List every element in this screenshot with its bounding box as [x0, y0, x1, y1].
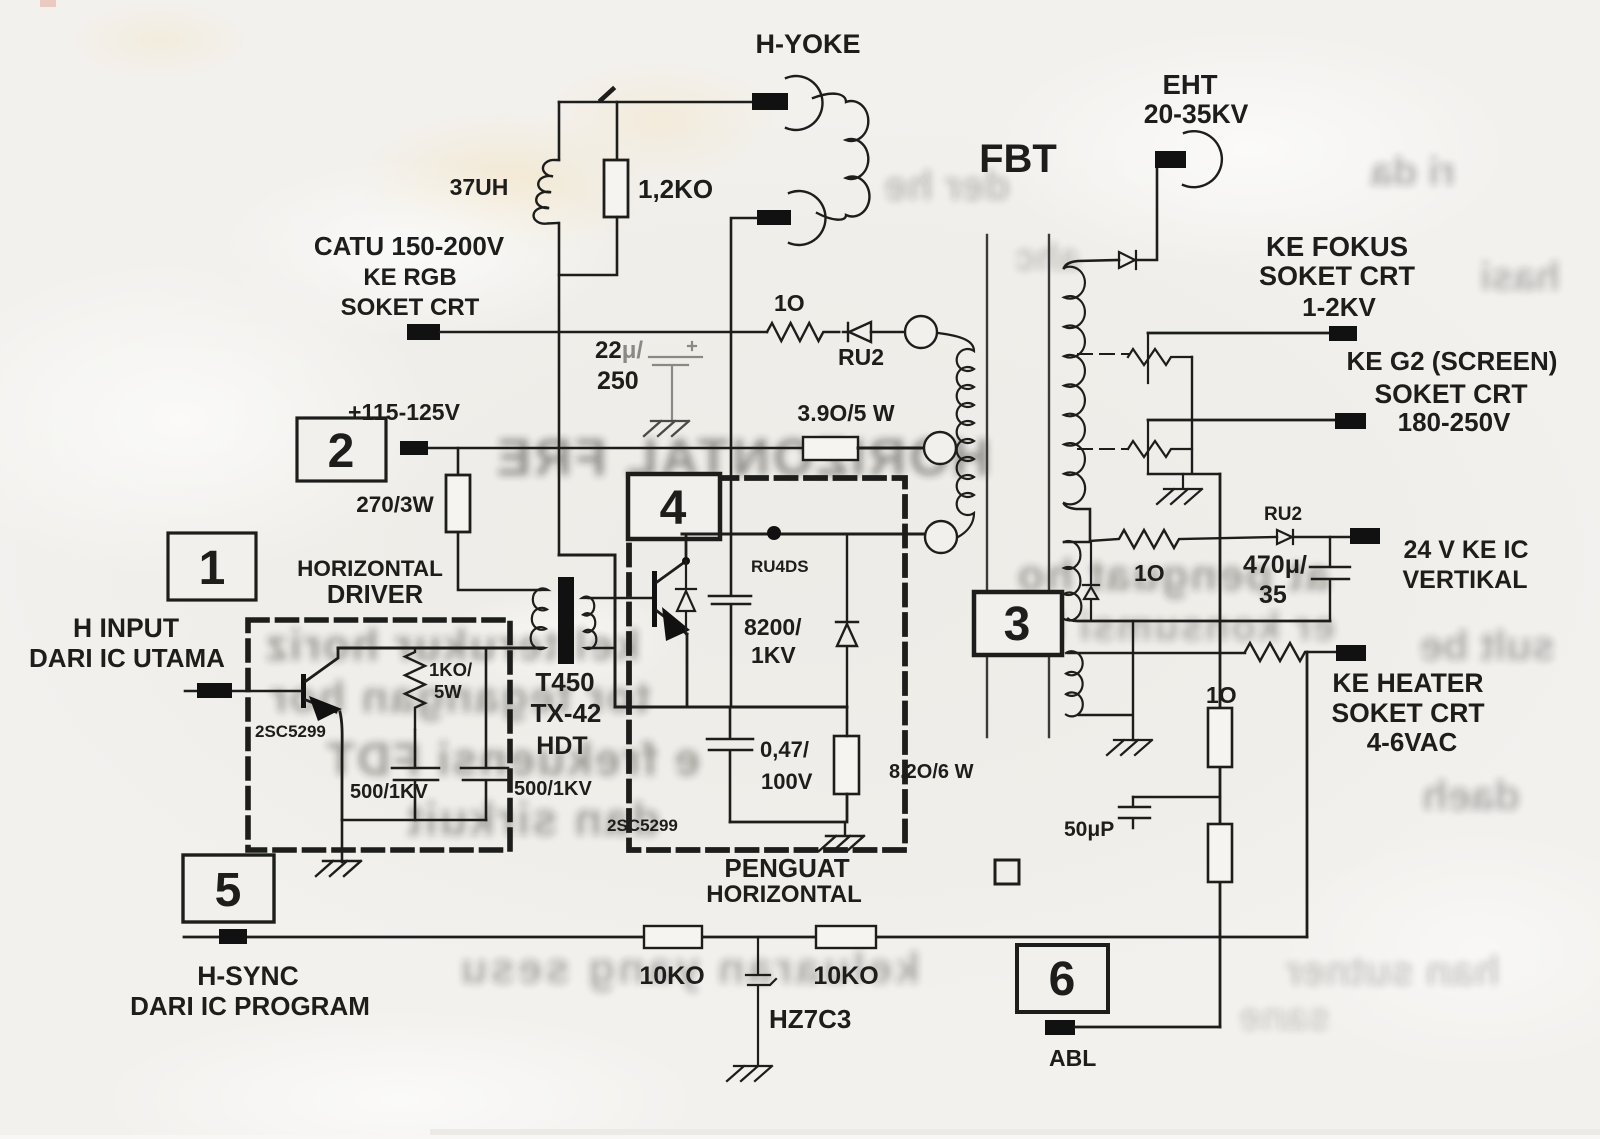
transistor Q1 emitter with arrow: [306, 700, 336, 712]
svg-text:H INPUT: H INPUT: [73, 613, 179, 643]
svg-text:SOKET CRT: SOKET CRT: [1374, 379, 1527, 409]
focus wiper: [1147, 333, 1149, 383]
svg-text:1: 1: [199, 542, 226, 595]
svg-text:10KO: 10KO: [639, 962, 704, 990]
FBT pin circle 2: [924, 432, 956, 464]
wire collector node rail y534: [682, 533, 924, 536]
wire driver collector rail y648: [338, 647, 543, 650]
node dot: [767, 526, 781, 540]
svg-text:5: 5: [215, 864, 242, 917]
wire driver emitter bottom: [342, 819, 486, 822]
wire 8.2 bottom loop: [730, 794, 847, 822]
connector KE G2 plug: [1335, 413, 1366, 429]
ground heater: [1107, 740, 1152, 755]
wire pots bottom rail: [1148, 357, 1220, 474]
wire heater top: [1068, 652, 1245, 654]
svg-text:ahc: ahc: [1015, 237, 1080, 279]
svg-text:5W: 5W: [434, 681, 462, 702]
svg-text:1O: 1O: [1134, 560, 1165, 586]
small square marker: [995, 860, 1019, 884]
svg-text:0,47/: 0,47/: [760, 737, 809, 762]
wire 1,2KO bottom loop: [559, 217, 617, 275]
FBT core lines: [987, 235, 1049, 737]
wire ABL chain vertical: [1219, 474, 1222, 1027]
svg-text:270/3W: 270/3W: [356, 492, 434, 517]
capacitor 470u/35: [1310, 537, 1350, 621]
svg-text:TX-42: TX-42: [531, 698, 602, 728]
wire ABL: [1075, 1026, 1220, 1029]
wire H-SYNC bus: [184, 936, 1307, 939]
capacitor 50uP: [1119, 797, 1150, 828]
svg-text:HORIZONTAL: HORIZONTAL: [297, 556, 443, 581]
diode RU2 right: [1277, 530, 1293, 544]
capacitor 0,47/100V: [707, 707, 753, 822]
svg-text:DARI IC PROGRAM: DARI IC PROGRAM: [130, 991, 370, 1021]
wire diode to FBT pin1: [843, 331, 906, 334]
wire +115 rail: [427, 447, 803, 450]
transistor Q1 2SC5299 base bar: [301, 674, 306, 708]
connector H INPUT plug: [197, 683, 232, 698]
svg-text:37UH: 37UH: [450, 174, 509, 200]
svg-text:2: 2: [328, 425, 355, 478]
FBT primary winding upper: [938, 333, 974, 537]
svg-text:SOKET CRT: SOKET CRT: [1259, 261, 1416, 291]
box 4: [628, 474, 720, 539]
wire FBT top to EHT diode: [1064, 260, 1119, 268]
svg-text:10KO: 10KO: [813, 962, 878, 990]
wire 50uP branch: [1133, 796, 1220, 798]
box 6: [1017, 945, 1108, 1012]
wire Q1 emitter down: [340, 712, 342, 820]
transformer T450 secondary winding: [582, 597, 596, 649]
svg-text:24 V KE IC: 24 V KE IC: [1403, 536, 1528, 564]
svg-text:sane: sane: [1239, 995, 1330, 1039]
box 2: [297, 418, 386, 481]
box 1: [168, 533, 256, 600]
resistor 1KO/5W zigzag: [405, 648, 425, 729]
wire 8.2 top lead: [846, 707, 849, 736]
svg-text:500/1KV: 500/1KV: [350, 781, 428, 803]
capacitor 500/1KV left: [392, 730, 439, 820]
svg-text:3.9O/5 W: 3.9O/5 W: [797, 400, 894, 426]
EHT socket arc: [1183, 131, 1222, 187]
svg-text:SOKET CRT: SOKET CRT: [1331, 698, 1484, 728]
ground driver: [316, 861, 361, 876]
screen wiper: [1147, 420, 1149, 474]
resistor 10KO left: [644, 926, 702, 948]
resistor ABL upper: [1208, 708, 1232, 767]
box 3: [974, 592, 1062, 655]
svg-text:1,2KO: 1,2KO: [638, 174, 713, 204]
transistor Q1 collector: [306, 648, 338, 681]
FBT winding 24V: [1064, 541, 1081, 621]
svg-text:ABL: ABL: [1049, 1045, 1096, 1071]
connector H-YOKE top plug: [752, 93, 788, 110]
capacitor 22u/250: [649, 342, 702, 421]
wire KE G2: [1148, 419, 1335, 422]
svg-text:1O: 1O: [774, 290, 805, 316]
svg-text:1KV: 1KV: [751, 642, 796, 668]
wire screen tap: [1078, 448, 1128, 450]
svg-text:500/1KV: 500/1KV: [514, 778, 592, 800]
resistor 8.2O/6W: [834, 736, 859, 794]
svg-text:DRIVER: DRIVER: [327, 581, 423, 609]
resistor ABL lower: [1208, 824, 1232, 882]
svg-text:EHT: EHT: [1163, 69, 1218, 100]
svg-text:4-6VAC: 4-6VAC: [1367, 727, 1458, 757]
svg-text:HZ7C3: HZ7C3: [769, 1004, 851, 1034]
svg-text:KE G2 (SCREEN): KE G2 (SCREEN): [1347, 346, 1558, 376]
transformer T450 core: [558, 577, 574, 664]
dashed box PENGUAT HORIZONTAL: [629, 478, 905, 850]
svg-text:HORIZONTAL: HORIZONTAL: [706, 881, 862, 908]
connector KE FOKUS plug: [1329, 326, 1357, 341]
wire 24V winding top: [1064, 541, 1090, 544]
dashed box HORIZONTAL DRIVER: [248, 620, 510, 850]
transistor Q2 emitter with arrow: [657, 611, 687, 634]
svg-text:35: 35: [1259, 581, 1287, 609]
resistor 270/3W: [446, 475, 470, 532]
svg-text:3: 3: [1004, 598, 1031, 651]
wire EHT diode to anode cap: [1135, 168, 1157, 260]
potentiometer focus: [1128, 349, 1192, 365]
svg-text:han sutner: han sutner: [1285, 947, 1500, 994]
wire top B+ to H-YOKE plug: [559, 101, 752, 104]
svg-text:470μ/: 470μ/: [1243, 551, 1307, 579]
wire FBT main bottom to 24V: [1064, 504, 1090, 541]
FBT secondary winding main: [1064, 267, 1085, 505]
connector CATU plug: [407, 324, 440, 340]
wire B+ elbow to x615: [559, 555, 615, 707]
svg-text:DARI IC UTAMA: DARI IC UTAMA: [29, 643, 225, 673]
svg-text:8.2O/6 W: 8.2O/6 W: [889, 761, 974, 783]
wire H INPUT to base: [185, 690, 301, 693]
inductor 37UH: [534, 160, 559, 224]
svg-text:FBT: FBT: [979, 137, 1057, 181]
svg-text:2SC5299: 2SC5299: [607, 816, 678, 835]
svg-text:HDT: HDT: [536, 732, 587, 760]
ground penguat: [819, 823, 864, 851]
resistor 270/3W leads: [458, 448, 540, 590]
svg-text:1O: 1O: [1206, 682, 1237, 708]
resistor 1 ohm 24V zigzag: [1090, 530, 1277, 548]
svg-text:20-35KV: 20-35KV: [1144, 99, 1249, 129]
wire H-YOKE return down x731: [731, 218, 757, 707]
svg-text:22μ/: 22μ/: [595, 337, 643, 364]
resistor 10KO right: [816, 926, 876, 948]
svg-text:H-SYNC: H-SYNC: [197, 961, 299, 991]
wire 1,2KO top lead: [616, 102, 619, 160]
wire T450 secondary bottom: [589, 647, 615, 650]
svg-text:6: 6: [1049, 953, 1076, 1006]
svg-text:KE RGB: KE RGB: [363, 264, 456, 291]
svg-text:180-250V: 180-250V: [1398, 407, 1511, 437]
svg-text:250: 250: [597, 367, 639, 395]
svg-text:CATU 150-200V: CATU 150-200V: [314, 231, 505, 261]
wire 3.9ohm to FBT pin2: [858, 447, 924, 450]
resistor 3.9 ohm 5W: [803, 437, 858, 460]
wire right return x1307: [1306, 652, 1309, 937]
svg-text:RU2: RU2: [1264, 504, 1302, 525]
box 5: [183, 855, 274, 922]
connector ABL plug: [1045, 1020, 1075, 1035]
connector H-SYNC plug: [219, 929, 247, 944]
zener HZ7C3: [746, 937, 776, 1066]
svg-text:1-2KV: 1-2KV: [1302, 292, 1376, 322]
svg-text:H-YOKE: H-YOKE: [755, 29, 860, 59]
H-YOKE top socket arc: [786, 76, 823, 130]
wire focus tap: [1078, 353, 1128, 355]
svg-text:ri da: ri da: [1370, 150, 1455, 194]
wire heater bottom: [1079, 621, 1133, 740]
svg-text:PENGUAT: PENGUAT: [724, 853, 849, 883]
connector H-YOKE bottom plug: [757, 210, 791, 225]
damper diode Q2: [676, 561, 696, 634]
svg-text:daeh: daeh: [1422, 772, 1520, 819]
svg-text:8200/: 8200/: [744, 614, 802, 640]
ground 22u cap: [644, 421, 689, 436]
connector EHT plug: [1155, 151, 1186, 168]
svg-text:RU2: RU2: [838, 344, 884, 370]
transistor Q2 collector: [657, 534, 686, 582]
diode RU2 top: [848, 322, 871, 342]
svg-text:50μP: 50μP: [1064, 818, 1114, 841]
diode RU4DS: [836, 534, 858, 707]
FBT pin circle 1: [905, 316, 937, 348]
H-YOKE bottom socket arc: [789, 191, 826, 245]
junction dot Q2 collector: [682, 557, 690, 565]
svg-text:sult be: sult be: [1420, 622, 1555, 669]
ground HZ7C3: [727, 1066, 772, 1081]
wire Q2 emitter down: [686, 634, 689, 707]
svg-text:T450: T450: [535, 667, 594, 697]
FBT winding heater: [1066, 651, 1083, 716]
resistor R 1,2KO: [604, 160, 628, 217]
pen tick on top wire: [601, 89, 613, 100]
svg-text:hasi: hasi: [1480, 255, 1560, 299]
svg-text:RU4DS: RU4DS: [751, 557, 809, 576]
svg-text:KE FOKUS: KE FOKUS: [1266, 231, 1408, 262]
svg-text:1KO/: 1KO/: [429, 659, 472, 680]
resistor 1 ohm top zigzag: [767, 323, 839, 341]
H-YOKE coil: [813, 94, 869, 220]
wire diode to 24V plug: [1292, 536, 1350, 539]
svg-text:+115-125V: +115-125V: [348, 399, 461, 425]
transformer T450 primary winding: [531, 588, 548, 649]
wire to driver ground: [341, 820, 344, 862]
potentiometer screen: [1128, 441, 1192, 457]
wire KE FOKUS: [1148, 332, 1329, 335]
svg-text:VERTIKAL: VERTIKAL: [1403, 566, 1528, 594]
diode 24V winding: [1083, 541, 1099, 619]
capacitor 8200/1KV plates: [709, 596, 751, 604]
connector +115 plug: [400, 441, 428, 455]
wire 24V return y621: [1068, 619, 1330, 621]
wire CATU 150-200V rail: [440, 331, 767, 334]
ground screen: [1157, 474, 1202, 504]
svg-text:100V: 100V: [761, 769, 813, 794]
connector 24V plug: [1350, 528, 1380, 544]
svg-text:2SC5299: 2SC5299: [255, 722, 326, 741]
svg-text:KE HEATER: KE HEATER: [1332, 668, 1483, 698]
capacitor 500/1KV right: [461, 768, 508, 820]
diode EHT: [1119, 251, 1136, 269]
transistor Q2 2SC5299 base bar: [652, 571, 657, 627]
wire branch x486 down to cap: [485, 648, 488, 767]
svg-text:SOKET CRT: SOKET CRT: [341, 294, 480, 321]
resistor 1 ohm heater zigzag: [1245, 643, 1336, 661]
connector heater plug: [1336, 645, 1366, 661]
FBT pin circle 3: [925, 521, 957, 553]
wire B+ vertical x559: [558, 102, 561, 555]
svg-text:HORIZONTAL FRE: HORIZONTAL FRE: [494, 429, 991, 487]
wire T450 secondary top to base Q2: [589, 597, 652, 600]
svg-text:4: 4: [660, 482, 687, 535]
wire inner bottom y707: [615, 706, 847, 709]
